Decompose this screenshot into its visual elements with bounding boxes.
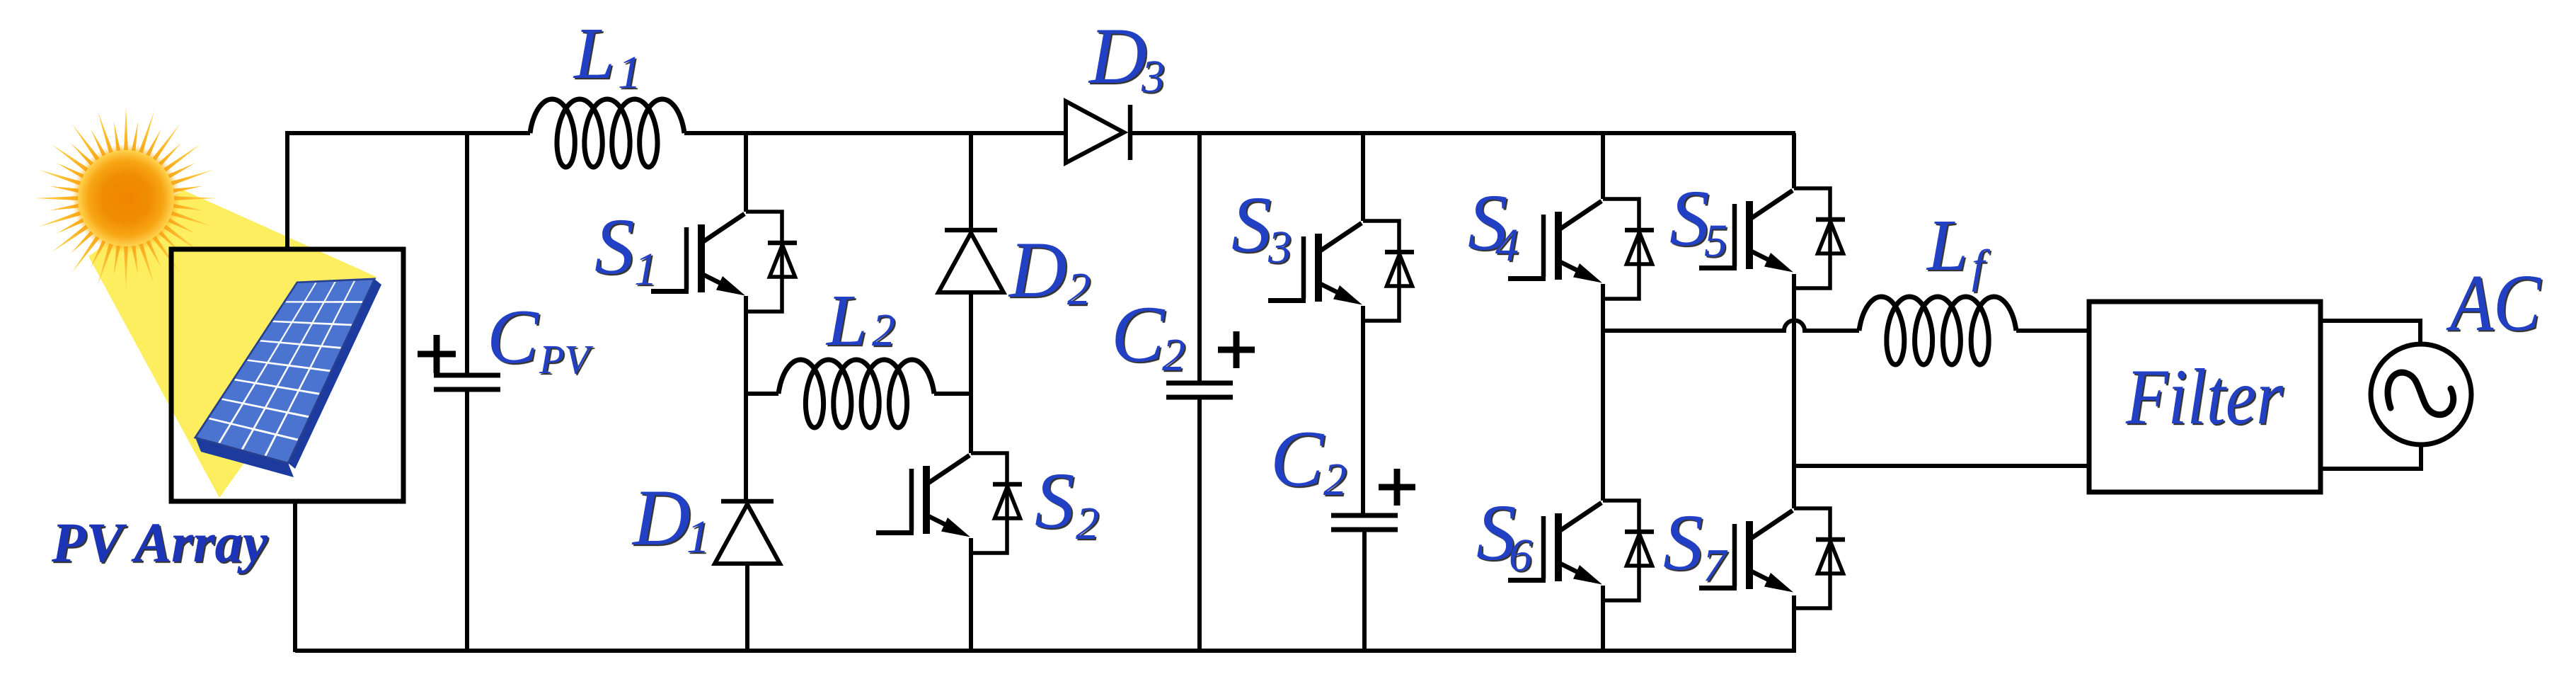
label S1 — [594, 202, 657, 295]
PV array box — [171, 249, 403, 501]
svg-text:1: 1 — [618, 47, 641, 98]
svg-text:L: L — [573, 13, 615, 94]
svg-text:C: C — [1270, 415, 1325, 503]
svg-text:1: 1 — [686, 511, 710, 563]
svg-text:C: C — [1111, 290, 1166, 379]
transistor S1 — [746, 212, 782, 312]
svg-text:f: f — [1972, 241, 1990, 292]
capacitor C2 lower — [1331, 513, 1398, 518]
wire PV top vertical — [285, 131, 289, 249]
transistor S7 — [1794, 508, 1830, 608]
wire S5 emitter to S7 — [1792, 274, 1796, 508]
wire S7 emitter to bottom — [1792, 595, 1796, 652]
label PV Array — [51, 513, 268, 574]
wire filter to AC bottom — [2321, 443, 2421, 469]
svg-text:PV Array: PV Array — [51, 513, 268, 574]
wire D1 to bottom bus — [745, 564, 749, 652]
wire D2 top — [969, 133, 973, 230]
wire filter to AC top — [2321, 321, 2420, 344]
label Cpv — [487, 294, 594, 382]
svg-text:C: C — [487, 294, 539, 380]
wire S3 emitter to C2 lower — [1361, 306, 1365, 515]
wire S1 emitter to D1 — [744, 296, 748, 501]
svg-text:D: D — [631, 474, 691, 562]
wire S3 collector — [1361, 133, 1365, 221]
label S4 — [1468, 178, 1519, 271]
svg-text:L: L — [825, 280, 868, 361]
wire Lf to filter — [2016, 329, 2089, 333]
svg-text:2: 2 — [1067, 263, 1091, 315]
AC source circle — [2371, 344, 2471, 445]
label S3 — [1231, 181, 1292, 273]
capacitor C2 upper — [1166, 381, 1233, 386]
svg-text:2: 2 — [1076, 498, 1099, 549]
inductor L1 — [530, 99, 684, 167]
label D3 — [1088, 12, 1165, 103]
inductor L2 — [778, 360, 934, 428]
svg-text:3: 3 — [1141, 51, 1165, 103]
svg-text:3: 3 — [1267, 222, 1292, 273]
label S7 — [1663, 498, 1728, 591]
wire L2 left lead — [746, 392, 778, 396]
label L2 — [825, 280, 895, 361]
svg-text:L: L — [1926, 205, 1968, 286]
light beam — [88, 190, 376, 498]
capacitor Cpv — [434, 373, 500, 378]
wire top bus mid segment — [684, 131, 1066, 135]
svg-text:2: 2 — [1323, 454, 1347, 506]
label Filter — [2125, 353, 2283, 441]
wire Cpv top — [465, 133, 469, 375]
filter box — [2089, 302, 2321, 492]
svg-text:D: D — [1088, 12, 1147, 101]
wire L2 right lead — [934, 392, 971, 396]
svg-text:2: 2 — [1162, 329, 1185, 381]
wire S5 collector — [1792, 133, 1796, 188]
label D1 — [631, 474, 710, 563]
svg-text:S: S — [1231, 181, 1272, 269]
svg-text:6: 6 — [1509, 530, 1532, 581]
svg-text:1: 1 — [634, 244, 657, 295]
label S5 — [1669, 174, 1727, 267]
plus sign Cpv — [418, 335, 456, 373]
transistor S3 — [1363, 221, 1399, 321]
label C2 lower — [1270, 415, 1347, 506]
wire C2 upper bottom — [1197, 397, 1202, 652]
plus sign C2 upper — [1218, 331, 1255, 368]
wire phase B to filter — [1794, 464, 2089, 468]
wire top bus left segment — [287, 131, 530, 135]
transistor S2 — [971, 453, 1007, 553]
wire S2 emitter to bottom — [969, 538, 973, 652]
svg-text:5: 5 — [1704, 215, 1727, 267]
diode D3 — [1066, 101, 1124, 163]
label Lf — [1926, 205, 1990, 292]
svg-text:S: S — [594, 202, 635, 291]
svg-text:PV: PV — [539, 336, 594, 382]
wire C2 lower to bottom — [1362, 530, 1367, 652]
PV panel — [195, 279, 381, 477]
wire S4 collector — [1601, 133, 1605, 199]
wire S6 emitter to bottom — [1601, 586, 1605, 652]
svg-text:AC: AC — [2446, 258, 2542, 348]
wire phase A with crossover hop — [1603, 321, 1859, 331]
diode D1 — [721, 499, 774, 504]
transistor S5 — [1794, 188, 1830, 288]
sun — [34, 106, 218, 290]
wire PV bottom vertical — [293, 501, 297, 652]
label AC — [2446, 258, 2542, 348]
inductor Lf — [1859, 297, 2016, 365]
transistor S6 — [1603, 501, 1639, 600]
svg-text:S: S — [1663, 498, 1703, 587]
wire C2 upper top — [1197, 133, 1202, 383]
plus sign C2 lower — [1379, 469, 1415, 506]
transistor S4 — [1603, 199, 1639, 299]
svg-text:D: D — [1008, 226, 1067, 314]
wire bottom bus — [295, 649, 1796, 653]
wire D2 to S2 — [969, 292, 973, 453]
svg-text:Filter: Filter — [2125, 353, 2283, 441]
svg-text:4: 4 — [1495, 219, 1519, 271]
label S6 — [1476, 489, 1532, 581]
svg-text:7: 7 — [1703, 540, 1728, 591]
wire S1 collector — [744, 133, 748, 212]
wire top bus right segment — [1130, 131, 1795, 135]
label D2 — [1008, 226, 1091, 315]
label C2 upper — [1111, 290, 1185, 381]
label S2 — [1035, 457, 1099, 549]
wire S4 emitter to S6 — [1601, 284, 1605, 501]
wire Cpv bottom — [465, 389, 469, 652]
diode D2 — [945, 228, 997, 233]
svg-text:2: 2 — [872, 304, 895, 356]
AC sine wave — [2388, 372, 2454, 415]
svg-text:S: S — [1035, 457, 1075, 545]
label L1 — [573, 13, 641, 98]
